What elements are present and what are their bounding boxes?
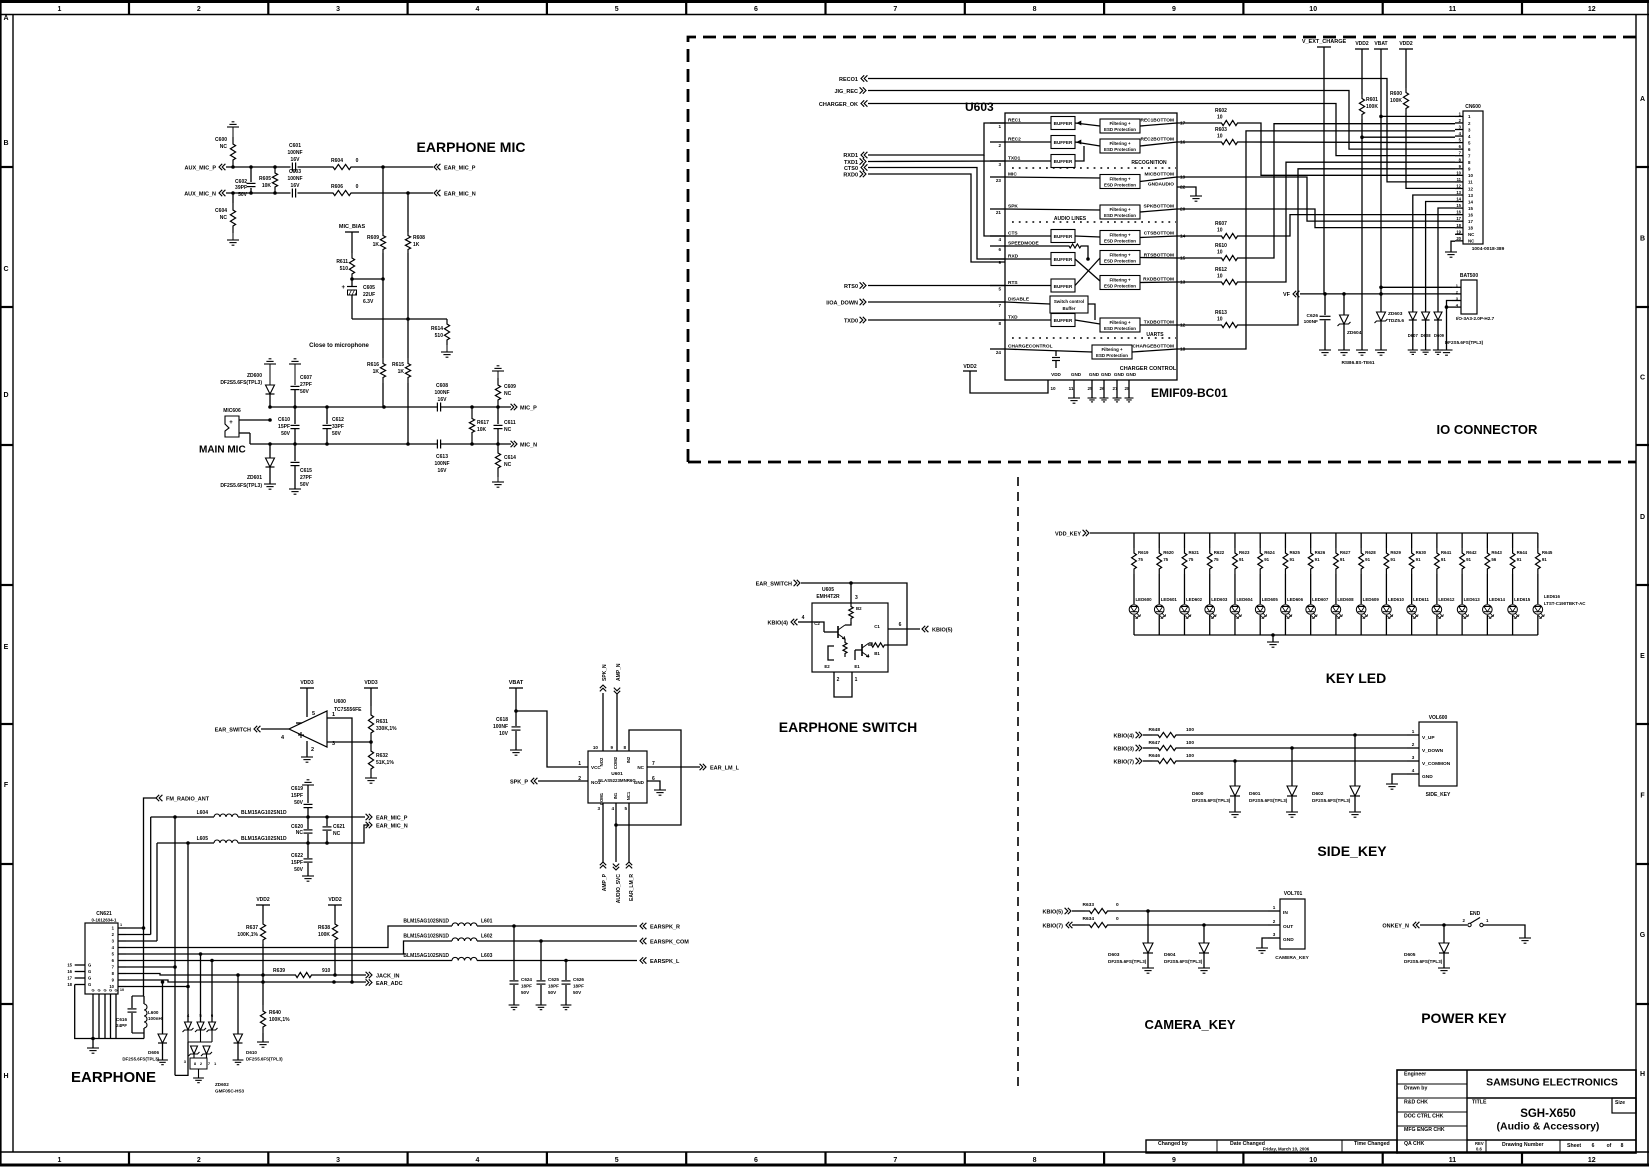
svg-text:75: 75	[1163, 557, 1168, 562]
resistor R614 510	[431, 319, 450, 345]
CN621 left pins G	[67, 963, 91, 988]
U605 pin labels bottom	[824, 646, 860, 683]
svg-text:EARSPK_L: EARSPK_L	[650, 959, 680, 965]
wire zener bottom loop	[175, 1042, 188, 1075]
svg-text:A: A	[1640, 96, 1645, 103]
svg-text:16: 16	[1468, 212, 1473, 217]
svg-text:AUDIO LINES: AUDIO LINES	[1054, 216, 1087, 222]
svg-text:D608: D608	[1421, 333, 1432, 338]
svg-text:5: 5	[624, 806, 627, 811]
svg-text:EARPHONE MIC: EARPHONE MIC	[417, 139, 526, 155]
power VDD2 R637	[256, 897, 270, 920]
capacitor C611 NC	[494, 407, 516, 444]
svg-text:SIDE_KEY: SIDE_KEY	[1317, 843, 1387, 859]
svg-text:1K: 1K	[373, 369, 380, 375]
net KBIO(4)	[1114, 732, 1142, 740]
buffer RXD	[1051, 253, 1075, 266]
svg-text:C625: C625	[548, 977, 559, 982]
wire R606 to EAR_MIC_N	[353, 191, 433, 195]
capacitor C622 15PF 50V	[291, 843, 312, 876]
svg-text:AMP_P: AMP_P	[602, 873, 608, 891]
svg-text:19: 19	[1456, 229, 1461, 234]
svg-text:VDD2: VDD2	[963, 364, 977, 370]
svg-text:TDZ5.6: TDZ5.6	[1388, 318, 1404, 324]
svg-text:56: 56	[1491, 557, 1496, 562]
ground above C609	[492, 366, 504, 378]
svg-text:18PF: 18PF	[548, 984, 559, 989]
svg-text:U600: U600	[334, 699, 346, 705]
svg-text:D600: D600	[1192, 791, 1204, 797]
U603 right pin labels	[1133, 118, 1186, 353]
svg-text:12: 12	[1456, 183, 1461, 188]
svg-text:8: 8	[1033, 1157, 1037, 1164]
svg-text:V_UP: V_UP	[1422, 735, 1435, 741]
svg-text:50V: 50V	[548, 990, 557, 995]
svg-text:EAR_LM_R: EAR_LM_R	[629, 874, 635, 901]
svg-text:BUFFER: BUFFER	[1054, 234, 1073, 239]
svg-text:510: 510	[435, 333, 444, 339]
wire EARSPK_L	[477, 959, 637, 963]
svg-text:BUFFER: BUFFER	[1054, 318, 1073, 323]
ground below R640	[257, 1041, 269, 1043]
svg-text:4: 4	[802, 615, 805, 621]
svg-text:Drawn by: Drawn by	[1404, 1086, 1427, 1092]
svg-text:BLM15AG102SN1D: BLM15AG102SN1D	[241, 810, 287, 816]
diode D602 DF2S5.6FS(TPL3)	[1312, 735, 1360, 812]
resistor R629 91	[1384, 533, 1401, 574]
resistor R645 91	[1535, 533, 1552, 574]
svg-text:NC: NC	[504, 462, 512, 468]
wire KBIO7 to OUT	[1112, 923, 1268, 927]
ground below D603	[1142, 967, 1154, 969]
ground above ZD600	[264, 359, 276, 385]
ground below C626	[1319, 349, 1331, 351]
svg-text:R611: R611	[336, 259, 348, 265]
power VDD2 U603	[963, 364, 1048, 393]
wire AUX_MIC_N	[226, 165, 291, 195]
U605 pin6 KBIO(5)	[814, 621, 952, 634]
svg-text:D: D	[1640, 514, 1645, 521]
svg-text:Filtering +: Filtering +	[1109, 233, 1131, 238]
svg-text:13: 13	[1468, 193, 1473, 198]
svg-text:VDD2: VDD2	[1399, 41, 1413, 47]
ground below D600	[1229, 811, 1241, 813]
svg-text:100NF: 100NF	[434, 461, 449, 467]
wire pin13 to D607	[1413, 195, 1455, 312]
svg-text:4: 4	[611, 806, 614, 811]
svg-text:L601: L601	[481, 919, 493, 925]
svg-text:ESD Protection: ESD Protection	[1104, 284, 1136, 289]
title block frame	[1146, 1070, 1636, 1153]
svg-text:LED614: LED614	[1489, 597, 1506, 602]
svg-text:17: 17	[1468, 219, 1473, 224]
svg-text:R630: R630	[1416, 550, 1427, 555]
svg-text:DF2S5.6FS(TPL3): DF2S5.6FS(TPL3)	[1164, 959, 1203, 964]
svg-text:C626: C626	[1307, 313, 1319, 319]
svg-text:EAR_MIC_P: EAR_MIC_P	[376, 816, 408, 822]
led LED611	[1407, 574, 1430, 635]
svg-text:VBAT: VBAT	[509, 680, 524, 686]
svg-text:15: 15	[67, 963, 72, 968]
diode D603 DF2S5.6FS(TPL3)	[1108, 911, 1153, 968]
ground below D609	[1433, 349, 1443, 351]
svg-text:1: 1	[855, 677, 858, 683]
resistor R631 330K 1%	[368, 706, 397, 742]
svg-text:50V: 50V	[294, 867, 304, 873]
svg-text:LED608: LED608	[1337, 597, 1354, 602]
svg-text:E: E	[1640, 653, 1645, 660]
svg-text:10: 10	[1050, 386, 1056, 391]
resistor R602 10	[1177, 108, 1241, 126]
resistor R638 100K	[318, 920, 338, 977]
svg-text:5: 5	[615, 1157, 619, 1164]
svg-text:ZD603: ZD603	[1388, 311, 1403, 317]
ground below ZD603	[1375, 349, 1387, 351]
svg-text:50V: 50V	[300, 389, 310, 395]
svg-text:LED615: LED615	[1514, 597, 1531, 602]
svg-text:R604: R604	[331, 158, 343, 164]
resistor R610 10	[1177, 243, 1241, 261]
resistor R617 10K	[469, 407, 489, 444]
svg-text:CN600: CN600	[1465, 104, 1481, 110]
svg-text:R631: R631	[376, 719, 388, 725]
svg-text:R639: R639	[273, 968, 285, 974]
buffer TXD	[1051, 314, 1075, 327]
svg-text:5: 5	[312, 711, 315, 717]
svg-text:ESD Protection: ESD Protection	[1104, 239, 1136, 244]
svg-text:10: 10	[1217, 274, 1223, 280]
svg-text:3: 3	[336, 1157, 340, 1164]
net KBIO(7)	[1114, 758, 1142, 766]
svg-text:ESD Protection: ESD Protection	[1104, 259, 1136, 264]
wire CHARGEBOTTOM to pin3	[1177, 131, 1455, 349]
svg-text:100K,1%: 100K,1%	[237, 932, 258, 938]
svg-text:CAMERA_KEY: CAMERA_KEY	[1275, 955, 1309, 961]
svg-text:SAMSUNG ELECTRONICS: SAMSUNG ELECTRONICS	[1486, 1077, 1618, 1089]
svg-text:18: 18	[1468, 226, 1473, 231]
net MIC_P	[511, 404, 538, 412]
net AMP_N	[614, 663, 622, 751]
svg-text:C608: C608	[436, 383, 448, 389]
svg-text:NO2: NO2	[599, 757, 604, 766]
svg-text:NC: NC	[504, 427, 512, 433]
wire pin6 to EARSPK_L	[126, 959, 452, 963]
svg-text:7: 7	[998, 303, 1001, 308]
svg-text:EAR_ADC: EAR_ADC	[376, 981, 403, 987]
svg-text:NO1: NO1	[591, 780, 601, 785]
IC VOL600	[1407, 715, 1457, 798]
net VDD_KEY	[1055, 530, 1089, 538]
svg-text:Filtering +: Filtering +	[1109, 121, 1131, 126]
net I/OA_DOWN	[826, 299, 866, 307]
svg-text:E: E	[4, 644, 9, 651]
wire C601 to R604	[298, 166, 332, 168]
wire EARSPK_R	[477, 924, 637, 928]
led LED615	[1508, 574, 1531, 635]
svg-text:15PF: 15PF	[278, 424, 290, 430]
wire ONKEY_N	[1420, 923, 1467, 927]
svg-text:BUFFER: BUFFER	[1054, 140, 1073, 145]
svg-text:NC1: NC1	[626, 791, 631, 800]
svg-text:R615: R615	[392, 362, 404, 368]
U603 bottom pin labels	[1050, 372, 1136, 391]
svg-text:BUFFER: BUFFER	[1054, 159, 1073, 164]
wire L604 to EAR_MIC_P	[173, 815, 365, 819]
ground CN621	[87, 1039, 99, 1054]
capacitor C605 22UF 6.3V polarized	[341, 279, 375, 319]
svg-text:6: 6	[754, 1157, 758, 1164]
resistor R639 910	[273, 968, 366, 978]
svg-text:C613: C613	[436, 454, 448, 460]
capacitor C626 100NF	[1304, 294, 1331, 350]
power VDD2 rail a	[1355, 41, 1369, 94]
svg-text:GND: GND	[1114, 372, 1125, 377]
wire RXD1	[868, 123, 1005, 155]
svg-text:0-1612634-1: 0-1612634-1	[92, 918, 117, 923]
resistor R632 51K 1%	[368, 742, 394, 778]
capacitor C602 39PF 50V	[235, 167, 255, 198]
title block TITLE cell	[1472, 1100, 1625, 1133]
led LED601	[1154, 574, 1177, 635]
net KBIO(7) camera	[1043, 922, 1073, 930]
svg-text:0: 0	[1116, 916, 1119, 922]
wire pin4 to EARSPK_R	[126, 926, 452, 948]
svg-text:910: 910	[322, 968, 331, 974]
svg-text:Filtering +: Filtering +	[1101, 347, 1123, 352]
svg-text:100nH: 100nH	[148, 1016, 162, 1021]
svg-text:BAT500: BAT500	[1460, 273, 1478, 279]
svg-text:AMP_N: AMP_N	[616, 663, 622, 681]
wire R604 to EAR_MIC_P	[353, 165, 433, 169]
svg-text:NC: NC	[333, 831, 341, 837]
resistor R633 0	[1072, 902, 1119, 914]
svg-text:KBIO(5): KBIO(5)	[932, 628, 953, 634]
wire mic leads	[239, 418, 272, 444]
svg-text:VDD3: VDD3	[364, 680, 378, 686]
wire CN621 ground bus	[75, 985, 144, 1041]
wire pin10 branch	[126, 985, 190, 989]
svg-text:FM_RADIO_ANT: FM_RADIO_ANT	[166, 797, 210, 803]
ground above C607	[289, 359, 301, 385]
net EARSPK_L	[640, 957, 680, 965]
svg-text:16V: 16V	[438, 397, 448, 403]
svg-text:BUFFER: BUFFER	[1054, 284, 1073, 289]
net EARSPK_COM	[640, 938, 689, 946]
svg-text:R616: R616	[367, 362, 379, 368]
svg-text:10: 10	[593, 745, 599, 750]
svg-text:R609: R609	[367, 235, 379, 241]
capacitor C620 NC	[291, 817, 312, 843]
svg-text:KBIO(4): KBIO(4)	[1114, 734, 1135, 740]
wire VDD_KEY rail	[1090, 532, 1538, 534]
svg-text:R603: R603	[1215, 127, 1227, 133]
svg-text:VDD_KEY: VDD_KEY	[1055, 532, 1081, 538]
svg-text:12: 12	[1588, 6, 1596, 13]
net EAR_MIC_N out	[366, 822, 408, 830]
connector BAT500	[1452, 273, 1495, 321]
column numbers bottom	[58, 1157, 1596, 1164]
svg-text:D607: D607	[1408, 333, 1419, 338]
svg-text:Buffer: Buffer	[1063, 306, 1076, 311]
capacitor C610 15PF 50V	[278, 407, 299, 444]
svg-text:END: END	[1470, 911, 1481, 917]
wire pin15 to D609	[1438, 208, 1455, 312]
svg-text:10K: 10K	[477, 427, 487, 433]
svg-text:GND: GND	[1422, 774, 1433, 780]
svg-text:R648: R648	[1149, 727, 1161, 733]
svg-text:G: G	[97, 988, 100, 993]
svg-text:CHARGEBOTTOM: CHARGEBOTTOM	[1133, 344, 1174, 350]
svg-text:DF2S5.6FS(TPL3): DF2S5.6FS(TPL3)	[122, 1057, 159, 1062]
resistor R627 91	[1334, 533, 1351, 574]
switch control buffer	[1050, 296, 1088, 313]
wire MICBOTTOM to pin17	[1177, 177, 1455, 221]
resistor U605 base R	[849, 603, 862, 622]
svg-text:C601: C601	[289, 143, 301, 149]
svg-text:DF2S5.6FS(TPL3): DF2S5.6FS(TPL3)	[1312, 798, 1351, 803]
svg-text:BUFFER: BUFFER	[1054, 257, 1073, 262]
capacitor C601 100NF 16V	[287, 143, 302, 172]
svg-text:VF: VF	[1283, 292, 1291, 298]
svg-text:2: 2	[1412, 742, 1415, 747]
led LED610	[1382, 574, 1405, 635]
svg-text:BLM15AG102SN1D: BLM15AG102SN1D	[403, 919, 449, 925]
tvs array ZD602 GMF05C-HS3	[183, 1013, 245, 1094]
svg-text:100K: 100K	[1390, 98, 1402, 104]
resistor R648 100	[1143, 727, 1194, 738]
net MIC_N	[511, 441, 538, 449]
svg-text:Engineer: Engineer	[1404, 1072, 1426, 1078]
resistor R626 91	[1308, 533, 1325, 574]
svg-text:ESD Protection: ESD Protection	[1096, 353, 1128, 358]
svg-text:10: 10	[1217, 134, 1223, 140]
resistor R603 10	[1177, 127, 1241, 145]
net TXD1	[844, 158, 866, 166]
svg-text:VDD2: VDD2	[328, 897, 342, 903]
net EAR_MIC_P	[434, 164, 476, 172]
svg-text:LED610: LED610	[1388, 597, 1405, 602]
svg-text:AUDIO_SVC: AUDIO_SVC	[616, 874, 622, 904]
svg-text:C604: C604	[215, 208, 227, 214]
diode D600 DF2S5.6FS(TPL3)	[1192, 761, 1240, 812]
svg-text:7: 7	[893, 6, 897, 13]
svg-text:C612: C612	[332, 417, 344, 423]
svg-text:C600: C600	[215, 137, 227, 143]
net SPK_N	[600, 664, 608, 751]
ground VOL701	[1256, 938, 1268, 953]
wire RTS0	[868, 285, 1005, 287]
svg-text:GNDAUDIO: GNDAUDIO	[1148, 182, 1174, 188]
svg-text:91: 91	[1239, 557, 1244, 562]
wire END to ground	[1483, 925, 1531, 943]
svg-text:EARPHONE SWITCH: EARPHONE SWITCH	[779, 719, 917, 735]
led LED616	[1533, 574, 1586, 635]
svg-text:R627: R627	[1340, 550, 1351, 555]
zener ZD601 DF2S5.6FS(TPL3)	[220, 444, 274, 489]
inductor L601 BLM15AG102SN1D	[403, 919, 492, 927]
svg-text:KBIO(3): KBIO(3)	[1114, 747, 1135, 753]
svg-text:ESD Protection: ESD Protection	[1104, 147, 1136, 152]
wire I/OA_DOWN	[868, 301, 1005, 303]
svg-text:EAR_MIC_N: EAR_MIC_N	[444, 192, 476, 198]
power VDD3 divider	[364, 680, 378, 706]
resistor R607 10	[1177, 221, 1241, 239]
svg-text:Filtering +: Filtering +	[1109, 177, 1131, 182]
led LED613	[1457, 574, 1480, 635]
svg-text:R621: R621	[1188, 550, 1199, 555]
svg-text:3: 3	[998, 162, 1001, 167]
ground above C619	[302, 780, 314, 803]
net EAR_MIC_N	[434, 190, 476, 198]
svg-text:Filtering +: Filtering +	[1109, 278, 1131, 283]
svg-text:RXD1: RXD1	[843, 153, 858, 159]
title block left column labels	[1404, 1072, 1445, 1148]
svg-text:L604: L604	[197, 810, 209, 816]
wire pin3 riser	[126, 940, 157, 942]
svg-text:RTS0: RTS0	[844, 284, 858, 290]
resistor C604 NC	[215, 193, 236, 233]
wire C603 to R606	[298, 192, 332, 194]
svg-text:1: 1	[578, 761, 581, 767]
ground below ZD604	[1338, 349, 1350, 351]
wire R611 to R609 branch	[350, 277, 385, 281]
wire JIG_REC	[868, 91, 1455, 150]
resistor R606 0	[331, 184, 359, 196]
svg-text:ZD600: ZD600	[247, 373, 262, 379]
svg-text:1: 1	[1273, 905, 1276, 910]
svg-text:H: H	[1640, 1071, 1645, 1078]
svg-text:BLM15AG102SN1D: BLM15AG102SN1D	[241, 836, 287, 842]
capacitor C612 33PF 50V	[323, 407, 345, 444]
wire AUX_MIC_P	[226, 166, 291, 168]
svg-text:ZD604: ZD604	[1347, 330, 1362, 336]
IC VOL701	[1268, 891, 1310, 961]
diode D608	[1421, 312, 1432, 350]
ground below D604	[1198, 967, 1210, 969]
ground CN600 shell	[1445, 241, 1457, 257]
svg-text:DF2S5.6FS(TPL3): DF2S5.6FS(TPL3)	[1192, 798, 1231, 803]
ground below BAT500	[1441, 349, 1453, 351]
svg-text:Date Changed: Date Changed	[1230, 1141, 1265, 1147]
svg-text:1: 1	[998, 124, 1001, 129]
svg-text:4: 4	[998, 237, 1001, 242]
resistor R646 100	[1143, 753, 1194, 764]
svg-text:R623: R623	[1239, 550, 1250, 555]
svg-text:R608: R608	[413, 235, 425, 241]
svg-text:13: 13	[1456, 190, 1461, 195]
svg-text:GND: GND	[1283, 937, 1294, 943]
svg-text:LED601: LED601	[1161, 597, 1178, 602]
svg-text:2: 2	[1273, 919, 1276, 924]
svg-text:Sheet: Sheet	[1567, 1143, 1581, 1149]
svg-text:3: 3	[1273, 932, 1276, 937]
wire opamp pin1 output	[327, 712, 352, 982]
svg-text:50V: 50V	[521, 990, 530, 995]
net EAR_LM_L	[700, 764, 740, 772]
wire MIC_N line	[250, 442, 511, 446]
led LED609	[1356, 574, 1379, 635]
svg-text:10: 10	[1309, 6, 1317, 13]
svg-text:R614: R614	[431, 326, 443, 332]
capacitor C625 18PF 50V	[537, 941, 560, 1005]
wire pin2 riser	[126, 934, 151, 936]
wire RXDBOTTOM to pin8	[1241, 162, 1455, 282]
wire L605 to EAR_MIC_N	[186, 825, 368, 845]
svg-text:LED602: LED602	[1186, 597, 1203, 602]
svg-text:CAMERA_KEY: CAMERA_KEY	[1144, 1017, 1235, 1032]
buffer TXD1	[1051, 155, 1075, 168]
svg-text:NC: NC	[637, 765, 644, 770]
